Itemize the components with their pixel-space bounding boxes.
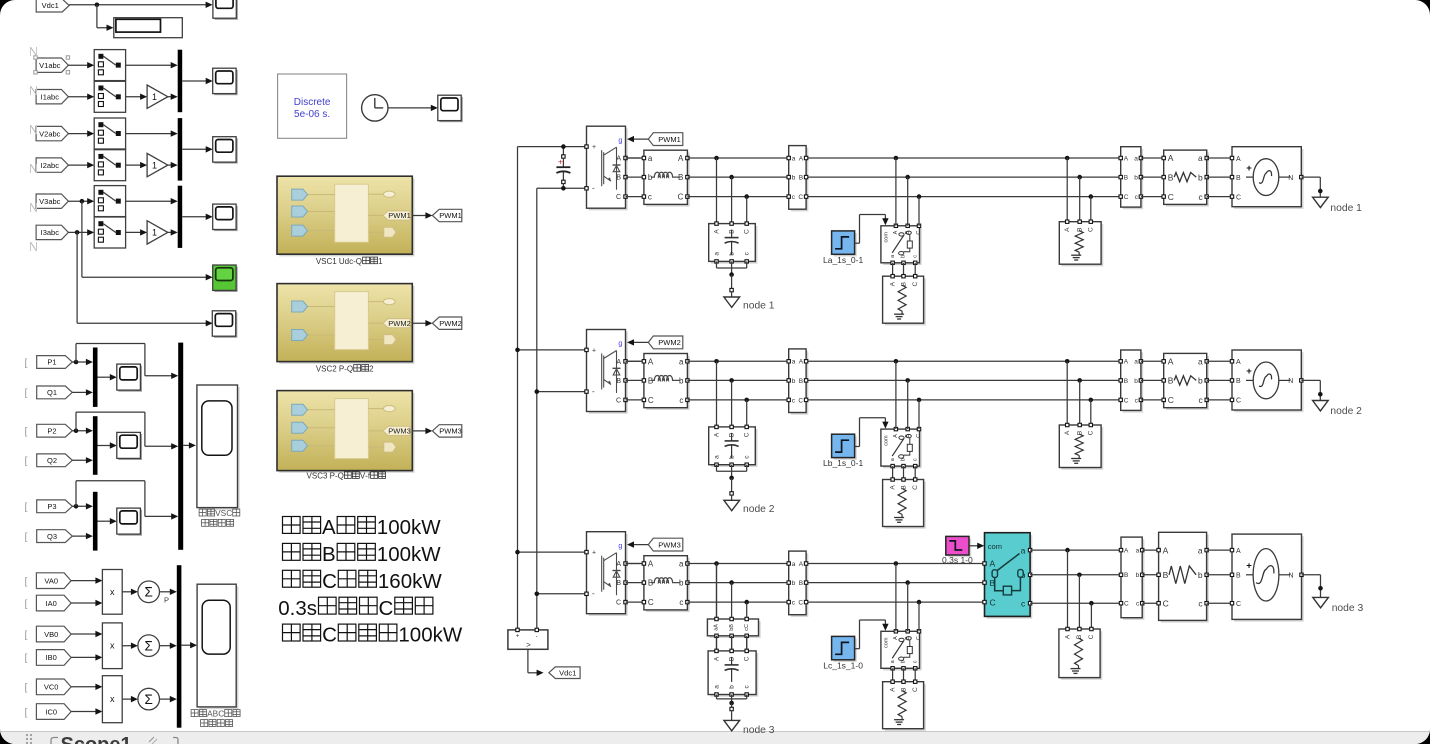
svg-text:B: B <box>1124 572 1128 579</box>
svg-text:[: [ <box>25 357 28 369</box>
svg-text:C: C <box>916 231 922 235</box>
svg-text:C: C <box>1163 598 1169 608</box>
svg-text:La_1s_0-1: La_1s_0-1 <box>823 255 863 265</box>
svg-text:W: W <box>443 624 463 647</box>
svg-text:c: c <box>1021 598 1026 608</box>
svg-text:b: b <box>1136 572 1140 579</box>
svg-text:0: 0 <box>388 543 399 566</box>
svg-text:1: 1 <box>378 570 389 593</box>
svg-text:C: C <box>1124 194 1129 201</box>
svg-text:P1: P1 <box>47 358 56 367</box>
svg-text:C: C <box>1088 227 1095 232</box>
svg-text:Q2: Q2 <box>47 456 57 465</box>
svg-text:A: A <box>322 516 336 539</box>
svg-text:A: A <box>678 154 684 163</box>
svg-text:a: a <box>1198 545 1203 555</box>
svg-text:B: B <box>616 378 621 385</box>
svg-text:c: c <box>912 660 918 663</box>
svg-text:C: C <box>912 282 919 287</box>
svg-text:[: [ <box>25 682 28 694</box>
svg-text:1: 1 <box>398 624 409 647</box>
svg-text:B: B <box>799 175 803 182</box>
svg-text:b: b <box>1134 378 1138 385</box>
svg-text:[: [ <box>25 501 28 513</box>
svg-text:[: [ <box>25 706 28 718</box>
svg-text:com: com <box>883 637 889 648</box>
svg-text:node 2: node 2 <box>1330 406 1362 417</box>
svg-text:B: B <box>616 580 621 587</box>
svg-text:[: [ <box>25 531 28 543</box>
svg-text:C: C <box>744 656 751 661</box>
svg-text:+: + <box>592 347 596 354</box>
svg-text:+: + <box>516 634 520 640</box>
svg-text:0.3s 1-0: 0.3s 1-0 <box>942 555 973 565</box>
svg-text:A: A <box>893 230 899 234</box>
svg-text:A: A <box>990 559 996 569</box>
svg-text:0: 0 <box>400 516 411 539</box>
svg-text:V3abc: V3abc <box>39 197 61 206</box>
svg-text:a: a <box>1198 153 1203 163</box>
svg-text:B: B <box>1124 175 1128 182</box>
svg-text:Scope1: Scope1 <box>61 734 132 744</box>
svg-text:C: C <box>648 396 654 405</box>
svg-text:0: 0 <box>388 516 399 539</box>
svg-text:C: C <box>1088 430 1095 435</box>
svg-text:A: A <box>889 281 896 286</box>
svg-text:com: com <box>883 232 889 243</box>
svg-text:[: [ <box>25 426 28 438</box>
svg-text:a: a <box>792 155 796 162</box>
svg-text:C: C <box>322 624 337 647</box>
svg-text:c: c <box>1198 395 1203 405</box>
svg-text:C: C <box>744 229 751 234</box>
svg-text:g: g <box>618 137 622 144</box>
svg-text:A: A <box>1064 227 1071 232</box>
svg-text:C: C <box>798 600 803 607</box>
svg-text:PWM1: PWM1 <box>439 211 462 220</box>
svg-text:C: C <box>616 194 621 201</box>
svg-text:c: c <box>912 458 918 461</box>
svg-text:P3: P3 <box>47 502 56 511</box>
svg-text:node 3: node 3 <box>1332 603 1364 614</box>
svg-text:IC0: IC0 <box>45 707 57 716</box>
svg-text:a: a <box>792 359 796 366</box>
svg-text:b: b <box>792 175 796 182</box>
svg-text:+: + <box>592 144 596 151</box>
svg-text:+: + <box>558 156 563 166</box>
svg-text:node 3: node 3 <box>743 725 775 736</box>
svg-text:A: A <box>1124 548 1129 555</box>
svg-text:W: W <box>422 570 442 593</box>
svg-text:a: a <box>1134 359 1138 366</box>
svg-text:1: 1 <box>377 516 388 539</box>
svg-text:c: c <box>679 396 683 405</box>
svg-text:b: b <box>1198 376 1203 386</box>
svg-text:a: a <box>713 252 720 256</box>
svg-text:1: 1 <box>152 228 157 238</box>
svg-text:+: + <box>592 550 596 557</box>
svg-text:node 1: node 1 <box>1330 203 1362 214</box>
svg-text:s: s <box>307 597 317 620</box>
svg-text:B: B <box>1163 570 1169 580</box>
svg-text:N: N <box>1288 378 1293 385</box>
svg-text:Q1: Q1 <box>47 388 57 397</box>
svg-text:x: x <box>110 641 115 651</box>
svg-text:a: a <box>713 685 720 689</box>
svg-text:Vdc1: Vdc1 <box>559 668 576 677</box>
svg-text:1: 1 <box>152 160 157 170</box>
svg-text:C: C <box>912 485 919 490</box>
svg-text:.: . <box>536 630 538 639</box>
svg-text:Q: Q <box>356 257 362 266</box>
svg-text:b: b <box>792 378 796 385</box>
svg-text:A: A <box>1163 545 1169 555</box>
svg-text:0: 0 <box>401 570 412 593</box>
svg-text:PWM1: PWM1 <box>658 135 681 144</box>
svg-text:A: A <box>616 156 621 163</box>
svg-text:c: c <box>1198 192 1203 202</box>
svg-text:1: 1 <box>332 257 337 266</box>
svg-text:A: A <box>1236 359 1241 366</box>
svg-text:Σ: Σ <box>145 584 153 599</box>
svg-text:C: C <box>916 434 922 438</box>
svg-text:Lb_1s_0-1: Lb_1s_0-1 <box>823 458 863 468</box>
svg-text:-: - <box>592 184 595 193</box>
svg-text:c: c <box>648 193 652 202</box>
svg-text:+: + <box>1246 163 1252 174</box>
svg-text:A: A <box>616 359 621 366</box>
svg-text:Σ: Σ <box>145 638 153 653</box>
svg-text:PWM3: PWM3 <box>658 540 681 549</box>
svg-text:C: C <box>1236 601 1241 608</box>
svg-text:C: C <box>616 600 621 607</box>
svg-text:aA: aA <box>714 624 720 631</box>
svg-text:[: [ <box>25 455 28 467</box>
svg-text:Σ: Σ <box>145 692 153 707</box>
svg-text:Q: Q <box>338 472 344 481</box>
svg-text:PWM2: PWM2 <box>658 338 681 347</box>
svg-text:C: C <box>322 570 337 593</box>
svg-text:P: P <box>164 595 169 604</box>
svg-text:b: b <box>1198 172 1203 182</box>
svg-text:B: B <box>322 543 336 566</box>
svg-text:A: A <box>648 560 654 569</box>
svg-text:a: a <box>792 561 796 568</box>
svg-text:[: [ <box>25 598 28 610</box>
svg-text:A: A <box>1168 153 1174 163</box>
svg-text:-: - <box>592 589 595 598</box>
svg-text:Q3: Q3 <box>47 532 57 541</box>
svg-text:[: [ <box>25 387 28 399</box>
svg-text:A: A <box>1168 357 1174 367</box>
svg-text:b: b <box>1134 175 1138 182</box>
svg-text:A: A <box>799 359 804 366</box>
svg-text:a: a <box>679 560 684 569</box>
svg-text:W: W <box>421 516 441 539</box>
svg-text:A: A <box>1236 156 1241 163</box>
svg-text:B: B <box>1168 172 1174 182</box>
svg-text:3: 3 <box>323 472 328 481</box>
svg-text:C: C <box>1124 601 1129 608</box>
svg-text:PWM3: PWM3 <box>388 427 411 436</box>
svg-text:0: 0 <box>410 624 421 647</box>
svg-text:A: A <box>1124 155 1129 162</box>
svg-text:C: C <box>798 397 803 404</box>
svg-text:C: C <box>912 687 919 692</box>
svg-text:A: A <box>799 155 804 162</box>
svg-text:C: C <box>226 508 232 518</box>
svg-text:A: A <box>889 687 896 692</box>
svg-text:b: b <box>792 580 796 587</box>
svg-text:2: 2 <box>369 364 374 373</box>
svg-text:C: C <box>218 709 224 719</box>
svg-text:com: com <box>883 435 889 446</box>
svg-text:node 2: node 2 <box>743 504 775 515</box>
svg-text:C: C <box>798 194 803 201</box>
svg-text:IB0: IB0 <box>46 653 57 662</box>
svg-text:c: c <box>679 598 683 607</box>
svg-text:P2: P2 <box>47 426 56 435</box>
svg-text:C: C <box>1236 398 1241 405</box>
svg-text:cC: cC <box>744 624 750 631</box>
svg-text:[: [ <box>25 652 28 664</box>
svg-text:a: a <box>648 154 653 163</box>
svg-text:com: com <box>988 542 1002 551</box>
svg-text:I3abc: I3abc <box>41 228 60 237</box>
svg-text:6: 6 <box>389 570 400 593</box>
svg-text:V2abc: V2abc <box>39 129 61 138</box>
svg-text:C: C <box>378 597 393 620</box>
svg-text:A: A <box>893 434 899 438</box>
svg-text:A: A <box>893 636 899 640</box>
svg-text:b: b <box>1198 570 1203 580</box>
svg-text:b: b <box>728 685 735 689</box>
svg-text:A: A <box>713 656 720 661</box>
svg-text:C: C <box>1124 397 1129 404</box>
svg-text:W: W <box>421 543 441 566</box>
svg-text:C: C <box>744 432 751 437</box>
svg-text:1: 1 <box>152 92 157 102</box>
svg-text:VB0: VB0 <box>44 630 58 639</box>
svg-text:B: B <box>1124 378 1128 385</box>
svg-text:5e-06 s.: 5e-06 s. <box>294 109 330 120</box>
svg-text:C: C <box>916 636 922 640</box>
svg-text:a: a <box>679 357 684 366</box>
svg-text:+: + <box>1246 561 1252 572</box>
svg-text:3: 3 <box>295 597 306 620</box>
svg-text:PWM2: PWM2 <box>388 319 411 328</box>
svg-text:VA0: VA0 <box>44 576 58 585</box>
svg-text:A: A <box>1236 548 1241 555</box>
svg-text:c: c <box>1198 598 1203 608</box>
svg-text:[: [ <box>25 575 28 587</box>
svg-text:PWM3: PWM3 <box>439 427 462 436</box>
svg-text:C: C <box>678 193 684 202</box>
svg-text:[: [ <box>25 629 28 641</box>
svg-text:>: > <box>526 641 531 650</box>
svg-text:2: 2 <box>332 364 337 373</box>
svg-text:C: C <box>1236 194 1241 201</box>
svg-text:a: a <box>1136 548 1140 555</box>
svg-text:A: A <box>889 485 896 490</box>
svg-text:C: C <box>990 597 996 607</box>
svg-text:B: B <box>1236 175 1241 182</box>
svg-text:0: 0 <box>278 597 289 620</box>
svg-text:C: C <box>1168 395 1174 405</box>
svg-text:A: A <box>648 357 654 366</box>
svg-text:PWM2: PWM2 <box>439 319 462 328</box>
svg-text:B: B <box>616 175 621 182</box>
svg-text:0: 0 <box>421 624 432 647</box>
svg-text:V1abc: V1abc <box>39 61 61 70</box>
svg-text:bB: bB <box>729 624 735 631</box>
svg-text:x: x <box>110 587 115 597</box>
svg-text:node 1: node 1 <box>743 301 775 312</box>
svg-text:a: a <box>1021 545 1026 555</box>
svg-text:VC0: VC0 <box>44 683 59 692</box>
svg-text:Lc_1s_1-0: Lc_1s_1-0 <box>823 660 863 670</box>
svg-text:B: B <box>799 580 803 587</box>
svg-text:A: A <box>799 561 804 568</box>
svg-text:Vdc1: Vdc1 <box>42 1 59 10</box>
svg-text:IA0: IA0 <box>46 599 57 608</box>
svg-text:Discrete: Discrete <box>294 97 331 108</box>
svg-text:g: g <box>618 341 622 348</box>
svg-text:I1abc: I1abc <box>41 92 60 101</box>
svg-text:a: a <box>1198 357 1203 367</box>
svg-text:A: A <box>713 229 720 234</box>
svg-text:1: 1 <box>377 543 388 566</box>
svg-text:+: + <box>1246 366 1252 377</box>
svg-text:a: a <box>713 455 720 459</box>
svg-text:I2abc: I2abc <box>41 161 60 170</box>
svg-text:B: B <box>1168 376 1174 386</box>
svg-text:1: 1 <box>378 257 383 266</box>
svg-text:C: C <box>1088 634 1095 639</box>
svg-text:x: x <box>110 694 115 704</box>
svg-text:Q: Q <box>347 364 353 373</box>
svg-text:0: 0 <box>400 543 411 566</box>
svg-text:A: A <box>1064 430 1071 435</box>
svg-text:B: B <box>1236 378 1241 385</box>
svg-text:c: c <box>912 255 918 258</box>
svg-text:N: N <box>1288 175 1293 182</box>
svg-text:A: A <box>616 561 621 568</box>
svg-text:C: C <box>1168 192 1174 202</box>
svg-text:B: B <box>799 378 803 385</box>
svg-text:N: N <box>1288 573 1293 580</box>
svg-text:-: - <box>592 387 595 396</box>
svg-text:PWM1: PWM1 <box>388 211 411 220</box>
svg-text:A: A <box>713 432 720 437</box>
svg-text:A: A <box>1064 634 1071 639</box>
svg-text:A: A <box>1124 359 1129 366</box>
svg-text:C: C <box>648 598 654 607</box>
svg-text:a: a <box>1134 155 1138 162</box>
svg-text:B: B <box>1236 573 1241 580</box>
svg-text:g: g <box>618 543 622 550</box>
svg-text:C: C <box>616 397 621 404</box>
